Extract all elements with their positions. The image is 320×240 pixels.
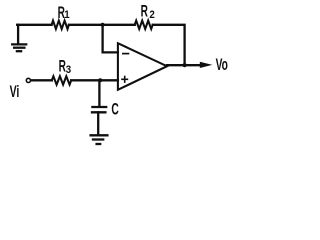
svg-text:R: R (141, 2, 148, 20)
output arrow (200, 62, 213, 68)
svg-text:3: 3 (66, 65, 72, 77)
input terminal circle (26, 78, 30, 82)
op-amp U1 (118, 43, 167, 90)
wire (103, 25, 118, 53)
svg-text:C: C (111, 100, 118, 118)
resistor R3 (52, 76, 71, 84)
resistor R1 (52, 21, 69, 29)
capacitor C (92, 107, 106, 112)
node junction dot top (101, 23, 105, 27)
svg-text:Vo: Vo (216, 56, 228, 74)
svg-text:2: 2 (149, 10, 155, 22)
node junction dot output (183, 63, 187, 67)
wire (69, 24, 135, 26)
label R3 (59, 57, 72, 76)
label R1 (58, 4, 70, 22)
svg-text:1: 1 (64, 10, 70, 22)
svg-text:Vi: Vi (10, 81, 20, 100)
wire (71, 79, 118, 81)
op-amp plus input (121, 76, 128, 83)
ground (91, 135, 108, 144)
op-amp minus input (122, 53, 129, 55)
ground (12, 25, 26, 51)
wire (153, 25, 185, 65)
wire (167, 64, 201, 66)
resistor R2 (135, 21, 153, 29)
label R2 (141, 2, 155, 21)
node junction dot plus input (98, 78, 102, 82)
wire (98, 80, 100, 106)
wire (17, 24, 51, 26)
wire (97, 112, 99, 134)
wire (31, 79, 52, 81)
